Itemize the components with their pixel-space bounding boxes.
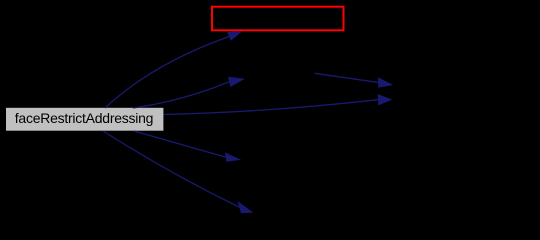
node: red-outlined box (truncated node) — [212, 7, 344, 31]
wire: edge 4 — [164, 100, 379, 115]
wire: edge 3 (from hidden node) — [315, 73, 379, 82]
arrowhead edge 5 — [225, 152, 241, 161]
arrowhead edge 2 — [228, 77, 245, 87]
wire: edge 2 — [133, 82, 229, 108]
wire: edge 1 to red box — [105, 37, 229, 109]
arrowhead edge 1 — [227, 31, 242, 41]
wire: edge 6 — [103, 131, 239, 207]
arrowhead edge 4 — [378, 94, 393, 105]
svg-text:faceRestrictAddressing: faceRestrictAddressing — [15, 110, 153, 126]
node faceRestrictAddressing (current node, grey fill) — [6, 108, 163, 131]
wire: edge 5 — [134, 131, 226, 157]
arrowhead edge 6 — [237, 201, 253, 213]
arrowhead edge 3 — [378, 77, 393, 87]
